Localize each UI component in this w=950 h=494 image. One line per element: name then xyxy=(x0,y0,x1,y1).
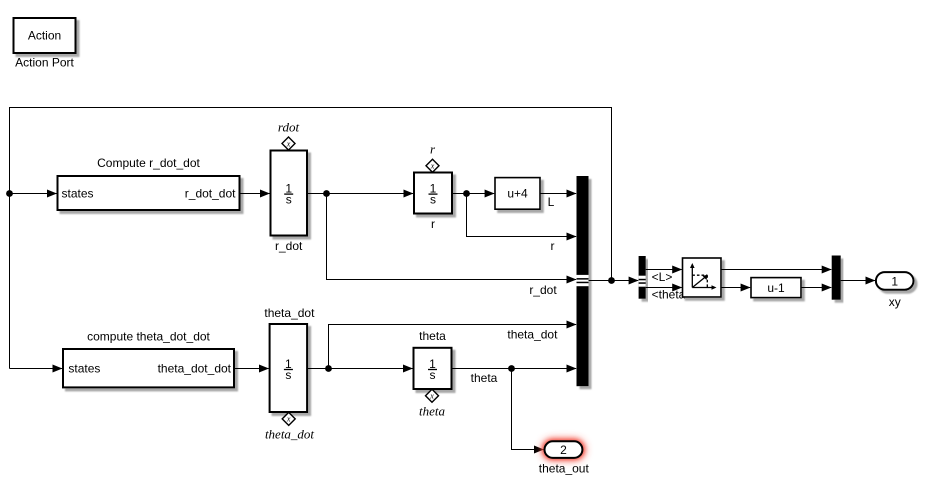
svg-text:theta_dot: theta_dot xyxy=(265,427,314,442)
svg-text:s: s xyxy=(285,368,291,382)
svg-text:theta_dot_dot: theta_dot_dot xyxy=(158,362,232,376)
svg-text:theta: theta xyxy=(419,404,445,419)
svg-text:Action: Action xyxy=(28,29,61,43)
svg-text:u+4: u+4 xyxy=(507,187,528,201)
svg-text:states: states xyxy=(68,362,100,376)
svg-text:s: s xyxy=(430,368,436,382)
svg-text:r_dot: r_dot xyxy=(275,239,303,253)
svg-text:r: r xyxy=(551,239,555,253)
svg-text:r: r xyxy=(430,142,436,157)
svg-text:L: L xyxy=(548,195,555,209)
svg-text:1: 1 xyxy=(891,274,898,288)
svg-text:theta_out: theta_out xyxy=(539,461,590,475)
svg-text:theta_dot: theta_dot xyxy=(264,306,315,320)
svg-text:theta_dot: theta_dot xyxy=(507,328,558,342)
svg-text:states: states xyxy=(62,186,94,200)
svg-text:u-1: u-1 xyxy=(767,281,785,295)
svg-text:theta: theta xyxy=(471,371,498,385)
svg-text:r: r xyxy=(431,217,435,231)
svg-text:s: s xyxy=(430,192,436,206)
svg-text:Compute r_dot_dot: Compute r_dot_dot xyxy=(97,156,200,170)
svg-text:<L>: <L> xyxy=(652,270,673,284)
svg-text:s: s xyxy=(286,192,292,206)
svg-text:r_dot_dot: r_dot_dot xyxy=(185,186,236,200)
svg-text:2: 2 xyxy=(560,443,567,457)
svg-text:xy: xy xyxy=(889,295,901,309)
svg-text:r_dot: r_dot xyxy=(529,283,557,297)
svg-text:rdot: rdot xyxy=(278,120,300,135)
svg-text:theta: theta xyxy=(419,329,446,343)
svg-text:Action Port: Action Port xyxy=(15,56,74,70)
svg-text:compute theta_dot_dot: compute theta_dot_dot xyxy=(87,330,210,344)
